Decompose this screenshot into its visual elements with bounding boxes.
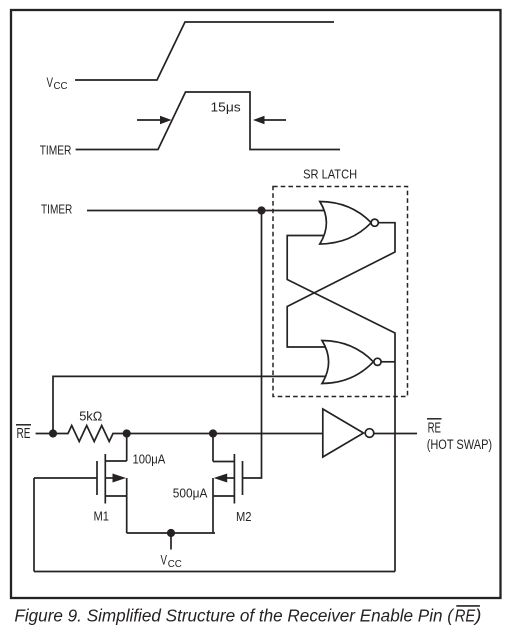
junction resistor / M1 drain [123, 429, 131, 437]
inverter U1 (hot swap buffer) [323, 409, 374, 457]
label TIMER (schematic input) [41, 201, 72, 216]
SR latch dashed enclosure [273, 187, 408, 397]
wire bottom rail [34, 571, 395, 573]
svg-text:M2: M2 [236, 509, 252, 524]
svg-text:RE: RE [455, 606, 476, 626]
resistor R 5k [53, 426, 127, 442]
wire left feedback riser [33, 478, 35, 572]
junction VCC tap [167, 529, 175, 537]
waveform VCC trace [75, 22, 334, 80]
waveform TIMER trace [76, 92, 340, 150]
label TIMER (timing diagram) [40, 142, 72, 157]
power label VCC (supply) [161, 552, 182, 570]
wire G2 output to Q vertical [381, 361, 395, 363]
svg-text:V: V [47, 74, 54, 90]
wire G2 output cross-couple to G1 lower input [287, 236, 395, 363]
svg-text:V: V [161, 552, 168, 568]
svg-text:15μs: 15μs [211, 99, 242, 114]
wire G1 output cross-couple to G2 upper input [287, 223, 395, 347]
wire RE pin lead [36, 433, 53, 435]
wire VCC stub [170, 533, 172, 550]
label M1 [94, 508, 110, 523]
overline of RE in caption [456, 605, 480, 607]
label VCC (timing diagram) [47, 74, 68, 92]
wire TIMER to NOR G1 input [87, 210, 326, 212]
svg-text:): ) [473, 606, 481, 626]
svg-text:RE: RE [428, 420, 441, 437]
junction M2 drain node [209, 429, 217, 437]
node RE (junction dot) [49, 429, 57, 437]
junction TIMER / M2-gate branch [257, 206, 265, 214]
transistor M2 [213, 454, 243, 533]
wire G2 lower input from RE node [53, 376, 326, 433]
label 15µs [211, 99, 242, 114]
value label 500µA [173, 486, 208, 501]
label SR LATCH [303, 167, 357, 182]
label RE (HOT SWAP) output, overlined [427, 420, 492, 452]
svg-text:M1: M1 [94, 508, 110, 523]
overline of RE (HOT SWAP) label [427, 418, 442, 420]
svg-text:SR LATCH: SR LATCH [303, 167, 357, 182]
wire TIMER branch down to M2 gate [243, 211, 262, 479]
svg-text:RE: RE [17, 425, 31, 442]
wire Q vertical (latch output down to bottom rail) [394, 362, 396, 572]
caption: Figure 9 [14, 606, 481, 626]
svg-text:Figure 9. Simplified Structure: Figure 9. Simplified Structure of the Re… [14, 606, 455, 626]
wire M1 drain riser [126, 434, 128, 462]
svg-text:(HOT SWAP): (HOT SWAP) [427, 437, 492, 452]
wire M2 drain riser [212, 434, 214, 462]
annotation arrow right (15µs) [253, 116, 286, 125]
svg-text:5kΩ: 5kΩ [79, 408, 102, 423]
label RE (pin, overlined) [17, 425, 31, 442]
overline of RE pin label [16, 424, 31, 426]
transistor M1 [97, 454, 127, 533]
value label 100µA [133, 452, 166, 467]
wire gate node to inverter input [127, 433, 326, 435]
annotation arrow left (15µs) [137, 116, 172, 125]
NOR gate G2 (reset) [322, 341, 381, 384]
svg-text:CC: CC [54, 81, 68, 92]
wire common source rail [127, 532, 215, 534]
svg-text:TIMER: TIMER [41, 201, 72, 216]
value label 5kΩ [79, 408, 102, 423]
wire M1 gate lead [34, 477, 97, 479]
svg-text:100μA: 100μA [133, 452, 166, 467]
svg-text:TIMER: TIMER [40, 142, 72, 157]
svg-text:500μA: 500μA [173, 486, 208, 501]
wire inverter output to RE (HOT SWAP) [374, 433, 417, 435]
NOR gate G1 (set) [320, 202, 379, 245]
label M2 [236, 509, 252, 524]
svg-text:CC: CC [168, 559, 182, 570]
